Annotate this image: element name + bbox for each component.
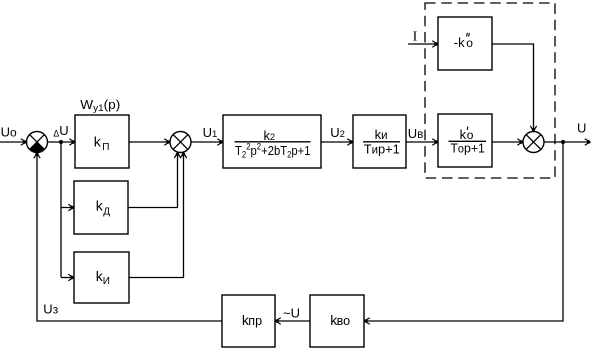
svg-text:И: И xyxy=(103,276,110,287)
wire: ki output Uv into dashed object xyxy=(406,141,438,143)
node U branch dot xyxy=(561,140,565,144)
wire: input I into block -k''o xyxy=(408,43,438,45)
block kP (proportional) xyxy=(75,115,129,168)
svg-text:Tиp+1: Tиp+1 xyxy=(364,142,400,157)
wire: dU branch down to kD and kI xyxy=(60,142,62,278)
block kI (integral) xyxy=(74,252,129,303)
svg-text:пр: пр xyxy=(248,314,262,328)
block W2 oscillatory k2/(T2^2p^2+2bT2p+1) xyxy=(223,115,321,168)
svg-text:Uв: Uв xyxy=(408,126,424,141)
wire: kP output to summing junction S2 xyxy=(129,141,170,143)
svg-text:U: U xyxy=(577,121,586,136)
wire: branch into kI xyxy=(61,277,74,279)
svg-text:~U: ~U xyxy=(283,306,300,321)
wire: S2 output U1 to oscillatory block xyxy=(191,141,223,143)
block k'o/(Top+1) xyxy=(438,114,492,167)
svg-text:k: k xyxy=(94,133,102,149)
wire: branch into kD xyxy=(61,207,74,209)
wire: S1 output to block kP with node xyxy=(48,141,75,143)
wire: kvo output ~U into kpr xyxy=(276,320,311,322)
wire: input U0 into summing junction 1 xyxy=(0,141,26,143)
svg-text:Tоp+1: Tоp+1 xyxy=(450,141,485,156)
svg-text:Д: Д xyxy=(103,207,110,218)
wire: S3 output U to right edge with branch node xyxy=(544,141,590,143)
summing junction S3 xyxy=(523,132,544,153)
svg-text:U: U xyxy=(59,123,68,138)
svg-text:Uз: Uз xyxy=(43,302,58,317)
block kD (derivative) xyxy=(74,181,128,234)
wire: k'o output to S3 xyxy=(492,141,523,143)
block kvo (rectifier) xyxy=(310,295,364,347)
summing junction S1 (comparator, filled lower sector) xyxy=(27,132,48,153)
block -k''o xyxy=(438,17,492,70)
wire: W2 output U2 to block ki xyxy=(321,141,353,143)
wire: -k''o output down into summing junction S3 xyxy=(492,44,534,131)
svg-text:во: во xyxy=(337,314,351,328)
block ki/(Tip+1) xyxy=(353,115,406,168)
svg-text:kи: kи xyxy=(375,127,388,142)
dashed boundary of controlled object xyxy=(425,3,555,178)
block kpr xyxy=(222,295,275,347)
svg-text:Uо: Uо xyxy=(1,124,17,139)
svg-text:I: I xyxy=(413,30,418,45)
svg-text:о: о xyxy=(466,36,473,50)
wire: feedback branch down from U node xyxy=(365,142,564,321)
wire: kpr output Uz back to S1 xyxy=(37,153,222,321)
node dU junction dot xyxy=(59,140,63,144)
summing junction S2 xyxy=(170,132,191,153)
svg-text:-k: -k xyxy=(454,35,465,50)
wire: kD output up into S2 xyxy=(128,153,178,208)
svg-text:П: П xyxy=(102,142,109,153)
wire: kI output up into S2 xyxy=(129,153,184,278)
